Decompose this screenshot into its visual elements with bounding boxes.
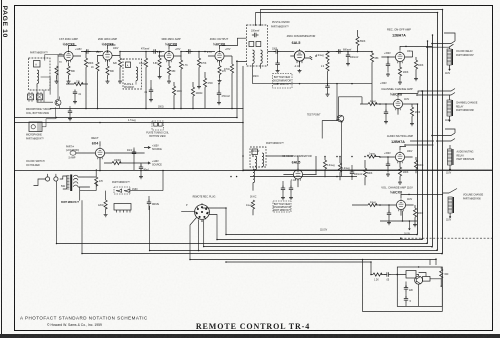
bus horizontal L7 [190, 259, 436, 261]
wire V4 plate to 46kc transformer [222, 38, 247, 61]
tube V6 [395, 51, 404, 64]
transformer 36kc box [250, 147, 266, 170]
junction dots global [56, 9, 444, 263]
bottom black bar [0, 334, 500, 338]
wire y176b [250, 176, 357, 178]
wires V5 [268, 52, 373, 68]
ground 120ohm [104, 213, 108, 217]
socket box [114, 204, 131, 213]
resistor 1.2K [373, 273, 382, 276]
wires V9 [266, 156, 317, 187]
wires V6 [381, 46, 432, 67]
power transformer T4 [60, 175, 96, 201]
wire V1 plate/grid [58, 46, 81, 57]
capacitor 151 to ground [149, 88, 153, 95]
wire V3-V4 [181, 51, 215, 53]
bus dashed line to frame [401, 237, 493, 239]
label 18.0V with arrow [409, 221, 411, 230]
resistor 1meg below [251, 200, 254, 209]
bus horizontal L1 [226, 234, 418, 236]
capacitor 6AL5 grid 1000 [274, 49, 281, 53]
wire y12.4 second bus [256, 12, 439, 14]
resistor plate load R at 86 [84, 58, 87, 67]
resistor 600 [440, 269, 443, 278]
plug circle [195, 203, 210, 219]
connector squares [28, 92, 43, 102]
bus vertical B2 [422, 91, 424, 240]
resistor 2.2meg [326, 52, 329, 61]
page edge rule [1, 0, 3, 338]
bus vertical B4 [432, 35, 434, 247]
resistor 193 1000 [191, 87, 194, 96]
relay1 coil [447, 49, 452, 65]
verticals feeding top buses [256, 9, 261, 25]
riser drive cap [149, 206, 151, 250]
plug wires stepping to bus [181, 208, 226, 259]
capacitor coupling C1 [84, 49, 91, 53]
wire V10 output down [380, 211, 417, 221]
relay2 contacts [417, 89, 455, 96]
psu wires [96, 169, 163, 213]
bus vertical B6 [442, 10, 444, 254]
bus horizontal L3 long [57, 243, 428, 245]
resistor 2.2 [326, 62, 329, 71]
resistor V6 cathode [398, 67, 401, 76]
cap 352 [350, 170, 354, 177]
resistor 325 36kc [323, 160, 326, 169]
riser interlock [56, 181, 58, 243]
resistor V8 cathode [398, 167, 401, 176]
resistor 205 4700 [203, 78, 206, 87]
ground V3 [167, 80, 171, 84]
wire bus y117 [15, 117, 238, 119]
resistor 199 [197, 58, 200, 67]
resistor 181 [179, 60, 182, 69]
bus horizontal L2 [217, 239, 423, 241]
capacitor C2 470mmf [151, 49, 158, 53]
wire y9 top bus [261, 9, 443, 11]
fuse .5 amp [70, 151, 76, 155]
motor control box [397, 267, 442, 306]
wires V7 [380, 91, 422, 115]
ground V2 [106, 80, 110, 84]
resistor V10 [413, 208, 416, 217]
long full width wire y170 [15, 170, 493, 172]
mic tuning coil box [29, 58, 51, 90]
resistor 120ohm [104, 200, 107, 209]
cap 190 [186, 49, 193, 53]
capacitor 219 470mmf [217, 91, 221, 98]
wires V11 [75, 141, 144, 170]
relay2 coil [447, 100, 452, 116]
wires V2 [97, 45, 120, 66]
interstage transformer plate/discriminator box [123, 59, 142, 89]
wires V4 [208, 46, 232, 66]
resistor 1meg grid V10 [368, 203, 377, 206]
resistor V8 grid 1meg [367, 155, 376, 158]
resistor 47K [95, 177, 98, 186]
resistor 1meg grid V7 [368, 102, 377, 105]
bus vertical B5 [437, 13, 439, 251]
microphone symbol [29, 107, 56, 131]
+140V source arrow [144, 162, 150, 164]
coil rect right [423, 277, 431, 282]
box wires [397, 267, 441, 306]
resistor 560K [356, 37, 359, 46]
wire y176 bus [243, 156, 493, 175]
resistor V3 cathode [167, 66, 170, 75]
wire V2-V3 [120, 51, 165, 53]
cap V7 cathode [384, 110, 388, 117]
cap 149 drive [147, 200, 151, 207]
resistor 79 horizontal 33K [74, 82, 83, 85]
wires disc out [336, 84, 338, 120]
bus horizontal L4 [204, 246, 433, 248]
tube V4 46kc output [207, 37, 231, 62]
riser transformer [81, 200, 83, 253]
discriminator transformer box [247, 25, 268, 69]
capacitor 680mmf [336, 49, 343, 53]
bus vertical B1 [417, 104, 419, 235]
relay3 contacts [432, 129, 455, 141]
ground V4 [218, 79, 222, 83]
transistor mic [55, 97, 61, 109]
tube V8 [395, 151, 404, 164]
wire right column x243 [242, 66, 244, 170]
wire bus y122.5 [15, 122, 244, 124]
outer loop riser [363, 260, 443, 312]
wire ground bus y108 [50, 108, 244, 110]
wires V3 [158, 46, 182, 67]
secondary coil left [253, 169, 255, 183]
relay1 contacts [427, 33, 455, 47]
cap V10 cathode [387, 211, 391, 218]
capacitor 100mmf right [346, 53, 350, 60]
tube V11 [95, 147, 104, 160]
wires V10 [380, 194, 443, 215]
resistor 232 [230, 64, 233, 73]
1000 ohm resistor [112, 161, 121, 164]
relay3 coil [448, 149, 453, 165]
coil rect left [406, 271, 416, 279]
resistor 159.6 grid V3 [158, 58, 161, 67]
resistor V7 [410, 107, 413, 116]
cap 388 muting [386, 162, 390, 169]
resistor 146 [144, 58, 147, 67]
volume change switch [443, 189, 457, 194]
resistor V4 cathode [218, 66, 221, 75]
capacitor 22K [404, 285, 408, 292]
resistor 126 plate [118, 58, 121, 67]
tube V2 2nd 46kc amp [96, 37, 119, 62]
interlock plug prongs [34, 174, 59, 186]
wires V8 [375, 141, 434, 168]
junction dots motor [397, 266, 442, 287]
plate tuning coil box [152, 121, 164, 130]
resistor 416 [414, 60, 417, 69]
tube V7 [393, 98, 402, 111]
cap 388 [386, 62, 390, 69]
wire 46kc sec down [253, 69, 273, 84]
filter caps [132, 150, 136, 157]
resistor 365 [363, 168, 366, 177]
+165V source arrow [144, 146, 150, 148]
resistor 416 muting [414, 160, 417, 169]
bottom view discriminator 36kc box [273, 201, 292, 212]
motor transistor circle [415, 276, 423, 284]
bus horizontal L6 [82, 253, 443, 255]
resistor V1 cathode 680 [67, 66, 70, 75]
junction dots [400, 220, 443, 260]
wire L7b feed [226, 262, 371, 275]
volume change coil [448, 197, 453, 213]
capacitor .05 [384, 272, 391, 276]
resistor at 98 vertical [96, 62, 99, 71]
resistor 68K [370, 53, 373, 62]
wire to V2 [81, 51, 103, 53]
motor box feeds [430, 259, 436, 265]
resistor V2 cathode [106, 66, 109, 75]
caps to ground under discriminator [275, 61, 279, 68]
capacitor .5 [404, 296, 408, 303]
selenium rectifier box [114, 187, 130, 194]
resistor grid V1 [55, 66, 58, 75]
bottom view discriminator box [273, 74, 293, 89]
cap mic [73, 90, 77, 97]
ground V1 [67, 80, 71, 84]
wire right column x237 [236, 60, 238, 117]
tube V3 3rd 46kc amp [157, 37, 181, 62]
tube V5 6al5 [294, 49, 304, 63]
resistor 340 36kc [338, 163, 341, 172]
caps under 36kc disc [281, 186, 285, 193]
tube V1 1st 46kc amp [59, 37, 82, 64]
tube V9 [293, 168, 302, 181]
bus horizontal L5 [150, 250, 438, 252]
tube V10 [396, 199, 405, 212]
wires mic section [37, 55, 64, 103]
capacitor aux mic [68, 109, 72, 116]
bus vertical B3 [427, 41, 429, 244]
resistor 174 100K [172, 86, 175, 95]
